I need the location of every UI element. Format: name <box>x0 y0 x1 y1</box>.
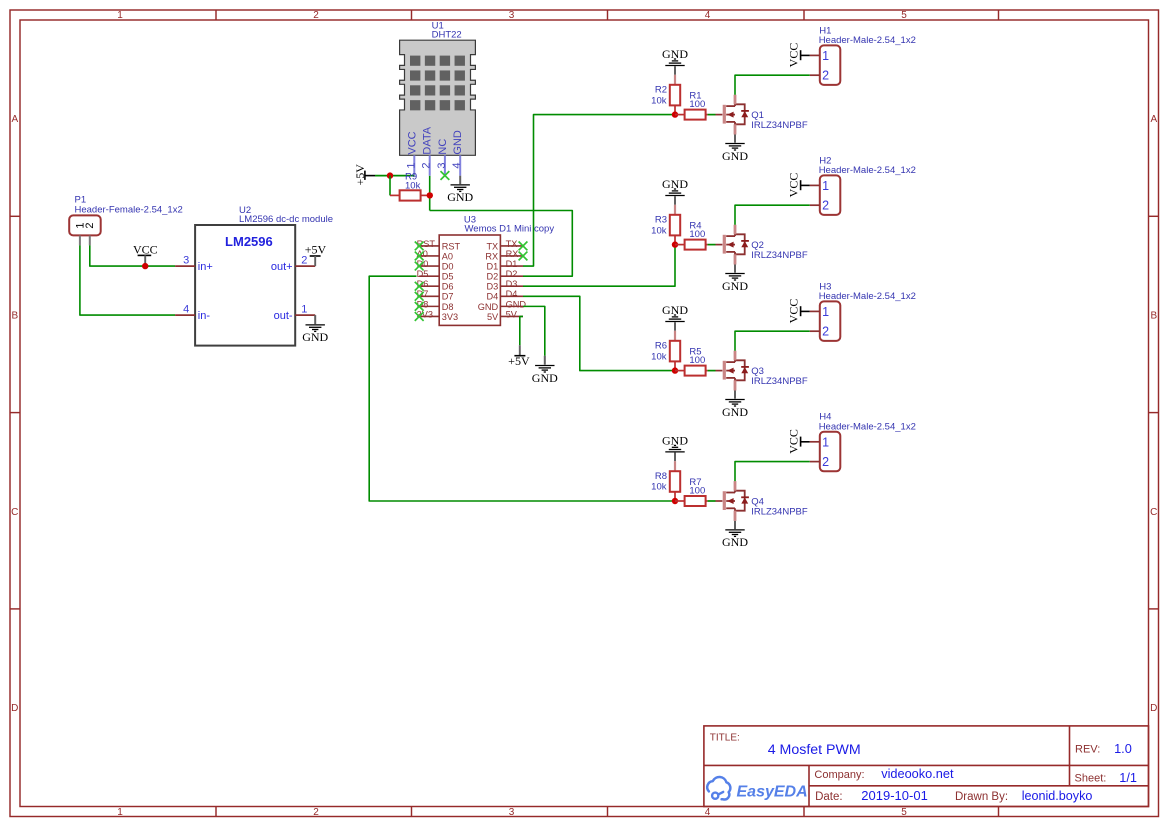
svg-text:Date:: Date: <box>815 791 843 803</box>
svg-text:VCC: VCC <box>786 299 800 324</box>
svg-text:Sheet:: Sheet: <box>1075 773 1107 785</box>
svg-text:NC: NC <box>437 139 449 155</box>
svg-text:TX: TX <box>506 239 518 249</box>
svg-text:1: 1 <box>405 163 417 169</box>
power flag +5V at U3.5V (inverted) <box>508 345 530 368</box>
svg-text:EasyEDA: EasyEDA <box>737 783 808 800</box>
ground GND at Q2 source <box>722 265 748 293</box>
svg-text:5: 5 <box>901 807 907 818</box>
svg-text:10k: 10k <box>651 95 667 106</box>
svg-text:2: 2 <box>822 455 829 469</box>
svg-text:D2: D2 <box>486 272 498 282</box>
svg-text:IRLZ34NPBF: IRLZ34NPBF <box>751 507 808 518</box>
sensor U1 DHT22 <box>400 21 476 176</box>
power flag +5V at U2.out+ <box>305 243 327 267</box>
svg-text:D8: D8 <box>442 302 454 312</box>
no-connect flag U3.D6 <box>415 282 424 291</box>
svg-text:3V3: 3V3 <box>417 309 433 319</box>
ground GND at U3.GND <box>532 356 558 385</box>
no-connect flag U3.D7 <box>415 292 424 301</box>
svg-text:GND: GND <box>478 302 499 312</box>
svg-text:Header-Male-2.54_1x2: Header-Male-2.54_1x2 <box>819 291 916 302</box>
svg-text:VCC: VCC <box>406 131 418 154</box>
svg-text:100: 100 <box>689 355 705 366</box>
wire R7 to Q4 gate <box>708 500 716 502</box>
svg-text:100: 100 <box>689 99 705 110</box>
svg-text:D4: D4 <box>486 292 498 302</box>
svg-text:D6: D6 <box>442 282 454 292</box>
svg-text:RX: RX <box>506 249 519 259</box>
svg-text:GND: GND <box>722 405 748 419</box>
svg-text:2: 2 <box>84 223 96 229</box>
svg-text:1: 1 <box>822 49 829 63</box>
svg-text:LM2596 dc-dc module: LM2596 dc-dc module <box>239 214 333 225</box>
svg-text:DHT22: DHT22 <box>432 30 462 41</box>
svg-text:Header-Male-2.54_1x2: Header-Male-2.54_1x2 <box>819 165 916 176</box>
svg-text:GND: GND <box>447 190 473 204</box>
resistor R4 100 (horizontal) <box>675 220 708 249</box>
svg-text:2: 2 <box>822 199 829 213</box>
power flag VCC at H4.1 <box>786 429 809 454</box>
svg-text:D1: D1 <box>486 261 498 271</box>
wire P1.1 to U2.in- <box>80 245 175 315</box>
junction gate node Q2 <box>672 241 678 247</box>
connector H1 Header-Male-2.54_1x2 <box>810 25 916 85</box>
svg-text:A0: A0 <box>442 251 453 261</box>
pin 1 U1.VCC <box>413 155 415 175</box>
wire DHT22.DATA down (D2 net) <box>429 176 431 211</box>
svg-text:2: 2 <box>313 10 319 21</box>
svg-text:leonid.boyko: leonid.boyko <box>1022 789 1093 803</box>
wire Q2 drain to H2.2 <box>735 205 810 225</box>
power flag VCC at input node <box>133 243 158 267</box>
connector H4 Header-Male-2.54_1x2 <box>810 412 916 472</box>
svg-text:LM2596: LM2596 <box>225 234 273 249</box>
ground GND at Q3 source <box>722 391 748 419</box>
svg-text:3V3: 3V3 <box>442 312 458 322</box>
svg-text:10k: 10k <box>651 351 667 362</box>
svg-text:GND: GND <box>532 371 558 385</box>
resistor R1 100 (horizontal) <box>675 90 708 119</box>
svg-text:Company:: Company: <box>814 769 864 781</box>
svg-text:R6: R6 <box>655 341 667 352</box>
ground GND at Q4 source <box>722 521 748 549</box>
svg-text:GND: GND <box>452 130 464 155</box>
svg-text:TX: TX <box>486 241 498 251</box>
svg-text:GND: GND <box>662 177 688 191</box>
junction R9 / DATA node <box>427 192 433 198</box>
ground GND at U2.out- <box>302 315 328 344</box>
svg-text:D: D <box>1150 703 1157 714</box>
svg-text:GND: GND <box>722 149 748 163</box>
EasyEDA logo <box>707 777 807 800</box>
pin 4 U2.in- <box>175 314 195 316</box>
svg-text:2: 2 <box>822 325 829 339</box>
svg-text:GND: GND <box>662 303 688 317</box>
power flag VCC at H3.1 <box>786 299 809 324</box>
resistor R7 100 (horizontal) <box>675 477 708 506</box>
svg-text:A: A <box>1150 114 1157 125</box>
pin 2 U1.DATA <box>429 155 431 175</box>
svg-text:2019-10-01: 2019-10-01 <box>861 788 928 803</box>
svg-text:C: C <box>11 507 18 518</box>
wire D1 net: U3.D1 to R1/R2 junction <box>523 115 675 266</box>
svg-text:R2: R2 <box>655 85 667 96</box>
svg-text:5V: 5V <box>506 309 518 319</box>
svg-text:+5V: +5V <box>508 354 530 368</box>
svg-text:C: C <box>1150 507 1157 518</box>
svg-text:2: 2 <box>313 807 319 818</box>
resistor R6 10k (vertical) <box>651 331 680 371</box>
svg-text:GND: GND <box>662 47 688 61</box>
svg-text:2: 2 <box>421 163 433 169</box>
svg-text:5: 5 <box>901 10 907 21</box>
svg-text:B: B <box>1150 311 1157 322</box>
ground GND above R2 <box>662 47 688 75</box>
svg-text:100: 100 <box>689 229 705 240</box>
resistor R9 10k <box>390 171 430 200</box>
svg-text:GND: GND <box>302 330 328 344</box>
wire U3.5V to +5V flag <box>520 316 523 345</box>
transistor Q4 IRLZ34NPBF <box>716 481 808 521</box>
svg-text:in-: in- <box>198 310 211 322</box>
svg-text:Header-Male-2.54_1x2: Header-Male-2.54_1x2 <box>819 35 916 46</box>
wire Q3 drain to H3.2 <box>735 331 810 351</box>
svg-text:IRLZ34NPBF: IRLZ34NPBF <box>751 250 808 261</box>
connector H3 Header-Male-2.54_1x2 <box>810 281 916 341</box>
svg-text:R3: R3 <box>655 215 667 226</box>
svg-text:D: D <box>11 703 18 714</box>
junction gate node Q4 <box>672 498 678 504</box>
pin 4 U1.GND <box>459 155 461 175</box>
svg-text:out-: out- <box>274 310 293 322</box>
svg-text:R8: R8 <box>655 471 667 482</box>
svg-text:5V: 5V <box>487 312 499 322</box>
svg-text:B: B <box>11 311 18 322</box>
resistor R8 10k (vertical) <box>651 461 680 501</box>
svg-text:1: 1 <box>117 807 123 818</box>
wire U3.GND to ground <box>523 306 545 355</box>
svg-text:1: 1 <box>822 179 829 193</box>
svg-text:D1: D1 <box>506 259 518 269</box>
svg-text:4: 4 <box>183 304 189 316</box>
title block <box>704 726 1149 807</box>
svg-text:2: 2 <box>822 69 829 83</box>
svg-text:Header-Female-2.54_1x2: Header-Female-2.54_1x2 <box>75 205 183 216</box>
svg-text:Header-Male-2.54_1x2: Header-Male-2.54_1x2 <box>819 421 916 432</box>
svg-text:4: 4 <box>705 807 711 818</box>
wire junction down to R9 left <box>389 176 391 196</box>
resistor R3 10k (vertical) <box>651 205 680 245</box>
junction gate node Q3 <box>672 367 678 373</box>
no-connect flag U3.RST <box>415 242 424 251</box>
resistor R2 10k (vertical) <box>651 75 680 115</box>
ground GND above R8 <box>662 433 688 461</box>
svg-text:1/1: 1/1 <box>1119 770 1137 785</box>
svg-text:videooko.net: videooko.net <box>881 766 954 781</box>
svg-text:D5: D5 <box>442 272 454 282</box>
svg-text:3: 3 <box>436 163 448 169</box>
svg-text:VCC: VCC <box>786 429 800 454</box>
no-connect flag U3.TX <box>519 242 528 251</box>
pin 2 U2.out+ <box>295 265 315 267</box>
junction gate node Q1 <box>672 111 678 117</box>
wire D4 net: U3.D4 to R5/R6 junction <box>523 296 675 370</box>
ground GND above R6 <box>662 303 688 331</box>
svg-text:VCC: VCC <box>786 173 800 198</box>
svg-text:GND: GND <box>662 433 688 447</box>
svg-text:in+: in+ <box>198 261 213 273</box>
no-connect flag U3.RX <box>519 252 528 261</box>
wire R4 to Q2 gate <box>708 244 716 246</box>
svg-text:3: 3 <box>509 807 515 818</box>
svg-text:GND: GND <box>722 279 748 293</box>
connector P1 Header-Female-2.54_1x2 <box>69 195 183 246</box>
svg-text:Drawn By:: Drawn By: <box>955 791 1008 803</box>
transistor Q2 IRLZ34NPBF <box>716 225 808 265</box>
pin 3 U2.in+ <box>175 265 195 267</box>
svg-text:10k: 10k <box>651 225 667 236</box>
svg-text:D4: D4 <box>506 289 518 299</box>
no-connect flag U3.3V3 <box>415 312 424 321</box>
wire Q1 drain to H1.2 <box>735 75 810 95</box>
svg-text:GND: GND <box>722 535 748 549</box>
power flag VCC at H1.1 <box>786 43 809 68</box>
junction VCC node <box>142 263 148 269</box>
svg-text:3: 3 <box>183 255 189 267</box>
svg-text:A: A <box>11 114 18 125</box>
wire R5 to Q3 gate <box>708 370 716 372</box>
svg-text:Wemos D1 Mini copy: Wemos D1 Mini copy <box>465 224 555 235</box>
wire Q4 drain to H4.2 <box>735 462 810 482</box>
svg-text:D7: D7 <box>442 292 454 302</box>
svg-text:1: 1 <box>822 305 829 319</box>
svg-text:IRLZ34NPBF: IRLZ34NPBF <box>751 376 808 387</box>
svg-text:1.0: 1.0 <box>1114 741 1132 756</box>
mcu U3 Wemos D1 Mini copy <box>419 214 554 325</box>
svg-text:4: 4 <box>705 10 711 21</box>
svg-text:10k: 10k <box>651 482 667 493</box>
power flag +5V at DHT22 <box>353 164 375 186</box>
svg-text:1: 1 <box>117 10 123 21</box>
connector H2 Header-Male-2.54_1x2 <box>810 155 916 215</box>
ground GND at Q1 source <box>722 135 748 163</box>
ground GND above R3 <box>662 177 688 205</box>
wire +5V to DHT22.VCC <box>375 175 414 177</box>
svg-text:REV:: REV: <box>1075 744 1100 756</box>
svg-text:D5: D5 <box>417 269 429 279</box>
no-connect flag U3.D8 <box>415 302 424 311</box>
svg-text:IRLZ34NPBF: IRLZ34NPBF <box>751 120 808 131</box>
svg-text:DATA: DATA <box>422 126 434 154</box>
resistor R5 100 (horizontal) <box>675 346 708 375</box>
power flag VCC at H2.1 <box>786 173 809 198</box>
svg-text:D3: D3 <box>486 282 498 292</box>
no-connect flag U3.A0 <box>415 252 424 261</box>
svg-text:GND: GND <box>506 299 527 309</box>
svg-text:VCC: VCC <box>786 43 800 68</box>
wire P1.2 to U2.in+ <box>90 245 175 266</box>
svg-text:out+: out+ <box>271 261 293 273</box>
wire D2 net: DATA to U3.D2 <box>430 211 573 277</box>
svg-text:VCC: VCC <box>133 243 158 257</box>
wire D5 net: U3.D5 to R7/R8 junction <box>369 276 675 501</box>
no-connect flag U3.D0 <box>415 262 424 271</box>
ground GND at DHT22.GND <box>447 176 473 205</box>
svg-text:RX: RX <box>485 251 498 261</box>
svg-text:1: 1 <box>301 304 307 316</box>
svg-text:RST: RST <box>442 241 461 251</box>
transistor Q3 IRLZ34NPBF <box>716 351 808 391</box>
pin 3 U1.NC <box>444 155 446 175</box>
module U2 LM2596 dc-dc module <box>175 205 333 345</box>
svg-text:3: 3 <box>509 10 515 21</box>
wire R1 to Q1 gate <box>708 114 716 116</box>
svg-text:4: 4 <box>451 163 463 169</box>
wire D3 net: U3.D3 to R4/R3 junction <box>523 245 675 287</box>
transistor Q1 IRLZ34NPBF <box>716 95 808 135</box>
no-connect flag DHT22.NC <box>441 171 450 180</box>
svg-text:D0: D0 <box>442 261 454 271</box>
svg-text:100: 100 <box>689 485 705 496</box>
svg-text:D2: D2 <box>506 269 518 279</box>
svg-text:TITLE:: TITLE: <box>710 733 740 744</box>
svg-text:D3: D3 <box>506 279 518 289</box>
junction +5V / R9 node <box>387 172 393 178</box>
svg-text:+5V: +5V <box>305 243 327 257</box>
svg-text:1: 1 <box>822 435 829 449</box>
pin 1 U2.out- <box>295 314 315 316</box>
svg-text:4 Mosfet PWM: 4 Mosfet PWM <box>768 742 861 758</box>
